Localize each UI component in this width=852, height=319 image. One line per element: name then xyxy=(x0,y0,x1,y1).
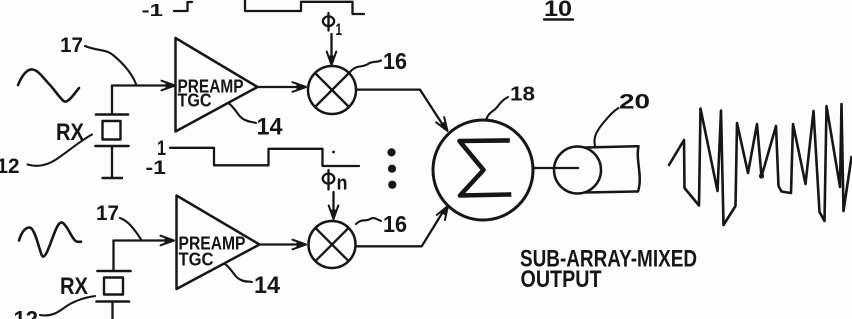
svg-text:-1: -1 xyxy=(146,158,167,179)
svg-text:RX: RX xyxy=(60,273,88,300)
svg-text:16: 16 xyxy=(383,211,407,237)
transducer element RX channel 1 xyxy=(96,115,129,179)
label 18 with leader xyxy=(486,84,535,121)
label 20 with leader xyxy=(594,91,650,146)
label 12 channel 1 with leader xyxy=(0,135,92,179)
op-amp A1: PREAMP TGC channel 1 xyxy=(176,38,258,132)
label 14 channel n with leader xyxy=(225,264,281,299)
wire: -1 level dash (top square wave) xyxy=(174,10,186,12)
op-amp A2: PREAMP TGC channel n xyxy=(177,196,260,290)
summer U18 (circle with sigma) xyxy=(433,120,533,220)
svg-text:TGC: TGC xyxy=(178,91,212,111)
wire: junction drop to transducer RX2 xyxy=(112,241,114,270)
wire: preamp A2 output to mixer M2 with arrowhead xyxy=(260,240,307,250)
label -1 (middle square wave) xyxy=(146,158,167,179)
wire: junction drop to transducer RX1 xyxy=(111,86,113,114)
svg-text:20: 20 xyxy=(619,91,650,114)
wire: summer output into transducer 20 xyxy=(533,167,578,169)
svg-text:12: 12 xyxy=(0,155,20,178)
svg-text:OUTPUT: OUTPUT xyxy=(521,266,602,293)
label 10 (figure number, underlined) xyxy=(544,0,573,21)
svg-text:10: 10 xyxy=(544,0,572,21)
wire: phase reference square wave phi1 (top, partially cropped) xyxy=(188,0,365,14)
node phi-n symbol xyxy=(323,170,348,195)
label SUB-ARRAY-MIXED OUTPUT xyxy=(520,246,697,294)
label RX channel n xyxy=(60,273,88,300)
wire: phi-n arrow into mixer M2 xyxy=(329,192,339,219)
label -1 (top square wave) xyxy=(142,0,164,20)
node phi1 symbol xyxy=(323,13,342,39)
wire: transducer to preamp A2 input with arrowhead xyxy=(114,236,175,246)
wire: transducer to preamp A1 input with arrowhead xyxy=(112,81,175,91)
svg-text:1: 1 xyxy=(336,20,343,39)
waveform: received echo sine, channel n xyxy=(19,222,81,256)
waveform: received echo sine, channel 1 xyxy=(18,69,79,101)
svg-text:n: n xyxy=(337,173,348,195)
svg-text:14: 14 xyxy=(254,272,281,299)
label 14 channel 1 with leader xyxy=(229,104,283,141)
svg-text:18: 18 xyxy=(510,84,535,106)
svg-text:17: 17 xyxy=(96,202,119,225)
cylinder: mixed-output transducer 20 xyxy=(554,146,640,193)
waveform: sub-array mixed RF output xyxy=(669,104,852,225)
label 1 (middle square wave) xyxy=(157,137,166,160)
wire: mixer M1 output to summer with arrowhead xyxy=(356,90,448,131)
wire: phi1 arrow into mixer M1 xyxy=(327,34,337,65)
svg-text:17: 17 xyxy=(60,34,83,57)
label 16 channel n with leader xyxy=(356,211,407,237)
label 17 channel 1 with leader xyxy=(60,34,136,84)
svg-text:16: 16 xyxy=(383,48,407,74)
node: vertical ellipsis dots xyxy=(387,148,396,189)
svg-text:-1: -1 xyxy=(142,0,164,20)
label 12 channel n with leader xyxy=(14,296,96,319)
label RX channel 1 xyxy=(56,119,84,146)
svg-text:TGC: TGC xyxy=(179,250,214,270)
label 16 channel 1 with leader xyxy=(350,48,407,74)
wire: preamp A1 output to mixer M1 with arrowhead xyxy=(258,82,307,92)
wire: phase reference square wave phi-n (middle) xyxy=(170,148,359,166)
svg-text:14: 14 xyxy=(257,114,284,141)
label 17 channel n with leader xyxy=(96,202,142,240)
svg-text:1: 1 xyxy=(157,137,166,160)
svg-text:12: 12 xyxy=(14,307,39,319)
wire: mixer M2 output to summer with arrowhead xyxy=(356,206,449,246)
node: ink speck xyxy=(332,151,335,154)
mixer M1 (circle with X) xyxy=(308,66,356,114)
transducer element RX channel n xyxy=(97,271,131,319)
mixer M2 (circle with X) xyxy=(309,221,356,268)
